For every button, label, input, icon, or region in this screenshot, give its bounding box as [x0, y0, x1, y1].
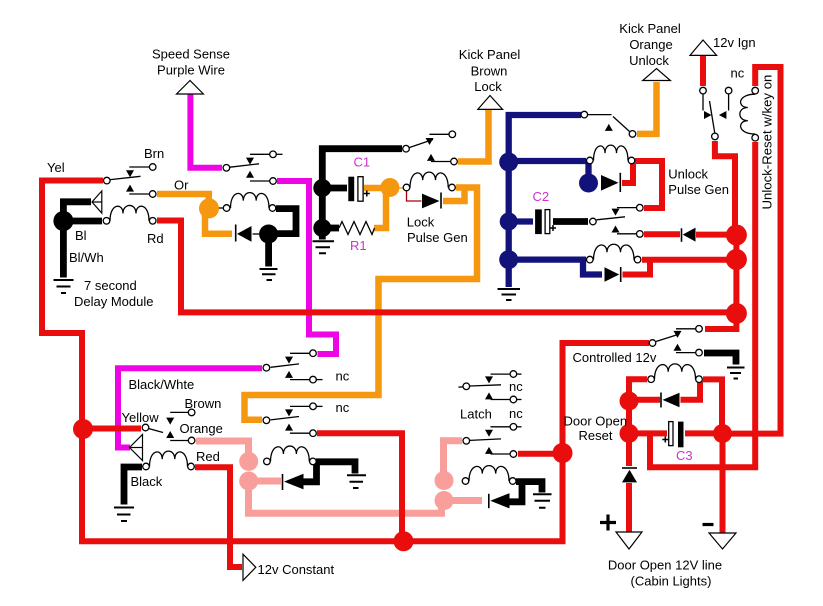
ground G4 navy bus	[498, 289, 521, 300]
wire: red 12v Ign pivot down to unlock dot column	[715, 141, 735, 226]
capacitor C3	[662, 422, 683, 448]
coil L1 7-sec delay relay	[110, 205, 149, 220]
wire: red plus line to Door Open diode	[626, 441, 632, 466]
svg-text:Kick Panel: Kick Panel	[619, 21, 681, 36]
connector triangle plus terminal	[616, 532, 642, 549]
diode Controlled 12v relay	[660, 393, 662, 408]
wire: black upper-mid relay coil right hook	[276, 209, 296, 234]
coil Yellow module relay	[150, 451, 188, 466]
svg-text:7 second: 7 second	[84, 278, 137, 293]
wire: black C1 junction to S3 pivot	[322, 149, 402, 181]
coil Unlock-Reset vertical relay	[740, 94, 755, 134]
svg-text:Unlock: Unlock	[629, 53, 669, 68]
module triangle T2 Yellow	[130, 435, 143, 461]
wire: orange from relay dot down to diode D1	[205, 214, 232, 234]
svg-text:Brown: Brown	[185, 396, 222, 411]
svg-text:nc: nc	[731, 66, 745, 81]
junction dots pink	[239, 452, 258, 471]
wire: black C1 dots vertical	[319, 188, 326, 228]
ground G1 7-sec module	[54, 280, 74, 293]
junction dots black	[53, 211, 73, 231]
svg-text:Pulse Gen: Pulse Gen	[668, 182, 729, 197]
wire: black dot down to ground G1	[60, 228, 67, 278]
svg-text:12v Ign: 12v Ign	[713, 35, 756, 50]
ground G7 Controlled 12v	[727, 368, 745, 379]
wire: red unlock dot to Controlled 12v top contact	[705, 311, 736, 329]
wire: black pink relay2 diode riser	[509, 484, 522, 502]
wire: orange Lock PG diode riser	[443, 188, 465, 202]
svg-text:C1: C1	[354, 155, 371, 170]
svg-text:Bl/Wh: Bl/Wh	[69, 250, 104, 265]
ground G6 pink relay 2	[533, 494, 552, 508]
svg-text:Door Open: Door Open	[564, 414, 628, 429]
arrows switch Yellow	[166, 418, 174, 425]
plus sign terminal	[600, 515, 616, 531]
wire: red unlock dots vertical	[733, 227, 739, 313]
arrows switch nc1	[285, 357, 293, 364]
wire: red Rd wire and middle bus	[157, 221, 730, 313]
diode pink relay 2	[488, 494, 490, 508]
wire: red row C diode jog	[623, 262, 651, 275]
svg-text:Black/Whte: Black/Whte	[129, 377, 195, 392]
wire: magenta Speed Sense wire	[190, 93, 222, 168]
svg-text:Unlock: Unlock	[668, 167, 708, 182]
wire: red 12v Ign arrow stem	[700, 54, 706, 87]
ground G8 Yellow module	[114, 508, 134, 522]
coil L2 upper-mid relay	[231, 193, 270, 208]
thin maroon link Lock PG coil to diode	[407, 192, 422, 202]
wire: red Unlock-Reset coil top to far right vertical	[731, 67, 781, 434]
wire: red dot83 to Yellow switch pivot	[83, 426, 141, 432]
coil navy unlock row A	[594, 145, 629, 160]
svg-text:Red: Red	[196, 449, 220, 464]
wire: red Latch bottom contact to dot	[518, 451, 556, 457]
svg-text:Lock: Lock	[474, 79, 502, 94]
svg-text:Orange: Orange	[629, 37, 672, 52]
svg-text:Brown: Brown	[471, 64, 508, 79]
diode navy row C	[620, 267, 622, 282]
switch S3 lock contact lines and blade	[430, 133, 449, 135]
diode pink relay 1	[282, 474, 284, 490]
coil Controlled 12v relay	[655, 364, 696, 379]
thin link orange dot to coil L2	[214, 207, 224, 209]
coil navy row C	[594, 244, 635, 259]
svg-text:C2: C2	[533, 189, 550, 204]
connector triangle minus terminal	[709, 533, 736, 549]
diode Door Open 12v line	[622, 467, 637, 469]
coil pink relay 1	[271, 446, 310, 461]
junction dots orange	[199, 198, 219, 218]
arrows switch Latch lower	[485, 430, 493, 437]
wire: magenta Black/Whte wire to T2 and nc pivot	[118, 368, 262, 447]
arrows switch S1	[126, 170, 134, 177]
diode unlock feedback	[681, 228, 683, 242]
diode D1 upper-mid relay	[235, 225, 237, 242]
svg-text:Or: Or	[174, 178, 189, 193]
svg-text:Pulse Gen: Pulse Gen	[407, 230, 468, 245]
wire: black dot to coil L1	[70, 218, 102, 225]
wire: pink stub relay1 diode	[252, 478, 281, 485]
wire: navy dot1 to coil A / dot2 branch	[513, 158, 586, 164]
svg-text:nc: nc	[336, 369, 350, 384]
wire: red Controlled 12v coil left leg	[629, 379, 647, 394]
wire: black dot to C1 plate	[330, 185, 347, 192]
wire: magenta S2 bottom contact to long vertical	[277, 181, 336, 354]
wire: black dot2 to ground G3	[319, 234, 326, 240]
diode navy row B	[619, 173, 621, 192]
connector triangle Speed Sense	[177, 81, 204, 95]
wire: navy branch to diode D row	[583, 260, 602, 275]
wire: red Yellow relay coil right to 12v Constant arrow	[195, 467, 242, 567]
switch kick-unlock contact line and blade	[588, 114, 612, 116]
wire: red main left loop Yel down to bottom bus to Controlled 12v feed	[42, 181, 649, 542]
wire: orange Kick Panel Unlock arrow to switch pivot	[637, 82, 657, 134]
arrows switch nc2	[285, 409, 293, 416]
junction dots red	[73, 419, 93, 439]
wire: black pink relay2 coil to ground G6	[516, 482, 542, 493]
connector triangle Lock	[478, 96, 503, 110]
wire: red unlock coil A loop	[635, 161, 662, 208]
svg-text:Latch: Latch	[460, 407, 492, 422]
switch C2 contact lines and blade	[617, 207, 636, 209]
svg-text:Yel: Yel	[47, 160, 65, 175]
wire: orange dot down to R1 right end	[374, 194, 386, 228]
resistor R1	[339, 222, 375, 235]
wire: red minus line	[720, 441, 726, 534]
wire: black pink relay1 diode riser	[303, 464, 317, 482]
switch nc1 contact lines and blade	[290, 352, 310, 354]
ground G3 C1 junction	[313, 241, 335, 253]
wire: orange C1 to orange dot	[364, 185, 383, 192]
wire: black upper-mid dot to ground G2	[265, 241, 272, 267]
svg-text:nc: nc	[509, 406, 523, 421]
wire: orange Lock PG coil right to nc switch 2 pivot	[245, 188, 478, 420]
wire: pink stub relay2 diode	[448, 497, 482, 504]
switch Latch lower contact lines and blade	[491, 426, 511, 428]
arrows switch S3	[426, 138, 434, 145]
wire: red row B2 bottom contact to unlock dot	[644, 231, 680, 237]
wire: black thick 7-sec module T1 to dot	[63, 202, 91, 214]
wire: red row B diode riser	[622, 163, 633, 183]
svg-text:C3: C3	[676, 448, 693, 463]
capacitor C1	[348, 177, 370, 202]
wire: red Door Open diode row	[637, 397, 660, 403]
svg-text:Rd: Rd	[147, 231, 164, 246]
svg-text:Purple Wire: Purple Wire	[157, 63, 225, 78]
diode Lock Pulse Gen	[440, 193, 442, 209]
ground G2 upper-mid relay	[260, 269, 278, 280]
wire: red nc switch 2 bottom contact to bottom bus	[317, 433, 402, 535]
wire: navy dot3 row C	[513, 256, 586, 262]
wire: navy vertical bus of unlock section	[509, 115, 581, 287]
coil L3 Lock Pulse Gen relay	[410, 172, 448, 187]
switch 12v Ign contact lines and blade	[702, 94, 704, 111]
wire: red dot column Door Open Reset	[626, 408, 632, 428]
svg-text:R1: R1	[350, 238, 367, 253]
thin link diode D1 to black dot	[253, 233, 262, 235]
svg-text:Controlled 12v: Controlled 12v	[573, 350, 657, 365]
svg-text:Reset: Reset	[579, 428, 613, 443]
svg-text:Delay Module: Delay Module	[74, 294, 154, 309]
terminal circles	[104, 177, 111, 184]
wire: pink feed to Latch pivot	[444, 441, 463, 473]
arrows switch C2	[612, 209, 620, 216]
wire: pink bus relay1 to relay2	[249, 489, 442, 513]
svg-text:Bl: Bl	[75, 228, 87, 243]
svg-text:Yellow: Yellow	[122, 410, 160, 425]
connector triangle 12v Ign	[690, 40, 717, 55]
wire: black Yellow relay coil left to ground G8	[124, 467, 142, 505]
svg-text:nc: nc	[509, 379, 523, 394]
svg-text:Black: Black	[131, 474, 163, 489]
module triangle T1 7-sec	[92, 191, 102, 213]
wire: pink feed from Orange contact to pink relay 1	[196, 441, 249, 453]
connector triangle 12v Constant	[243, 554, 256, 580]
wire: magenta nc switch top contact jog (same run)	[320, 352, 336, 354]
svg-text:Brn: Brn	[144, 146, 164, 161]
svg-text:Door Open 12V line: Door Open 12V line	[608, 558, 722, 573]
wire: black dot2 to R1	[330, 225, 339, 232]
capacitor C2	[535, 209, 556, 234]
coil pink relay 2	[469, 466, 509, 481]
ground G5 pink relay 1	[347, 475, 366, 488]
wire: orange dot to Lock Pulse Gen coil (behind circle)	[395, 187, 404, 189]
connector triangle Kick Panel Unlock	[643, 69, 671, 81]
wire: red Controlled 12v coil right leg	[703, 379, 722, 427]
wire: red C3 row	[636, 430, 667, 436]
wire: black pink relay1 coil to ground G5	[316, 462, 355, 474]
switch nc2 contact lines and blade	[290, 405, 310, 407]
minus sign terminal	[703, 523, 714, 526]
svg-text:Kick Panel: Kick Panel	[459, 47, 521, 62]
wire: orange Or contact to upper-mid relay dot	[157, 194, 209, 202]
wire: black C2 to switch pivot	[553, 218, 588, 225]
wire: navy C2 stub	[513, 218, 533, 224]
arrows switch Latch upper	[485, 376, 493, 383]
arrows switch S2	[246, 158, 254, 165]
svg-text:Lock: Lock	[407, 215, 435, 230]
svg-text:12v Constant: 12v Constant	[258, 562, 335, 577]
wire: orange S3 bottom contact to Lock arrow	[458, 106, 489, 162]
wire: red row C coil to unlock dot	[642, 257, 728, 263]
arrows switch 12v Ign	[704, 111, 712, 119]
wire: red Unlock-Reset coil bottom long vertical to C3 loop	[650, 142, 755, 467]
switch S1 Yel contact lines and blade	[129, 166, 149, 168]
switch Latch upper contact lines and blade	[459, 386, 463, 388]
switch S2 speed sense contact lines and blade	[250, 153, 270, 155]
svg-text:Unlock-Reset w/key on: Unlock-Reset w/key on	[760, 75, 775, 210]
wire: black Controlled 12v bottom contact to ground G7	[704, 353, 736, 365]
switch Controlled 12v contact lines and blade	[676, 328, 696, 330]
svg-text:Speed Sense: Speed Sense	[152, 47, 230, 62]
arrow switch kick-unlock	[605, 124, 613, 131]
junction dots navy	[499, 153, 518, 172]
switch Yellow contact lines and blade	[170, 411, 188, 413]
svg-text:nc: nc	[336, 400, 350, 415]
arrows switch Controlled 12v	[674, 331, 682, 338]
svg-text:Orange: Orange	[180, 421, 223, 436]
svg-text:(Cabin Lights): (Cabin Lights)	[631, 574, 712, 589]
